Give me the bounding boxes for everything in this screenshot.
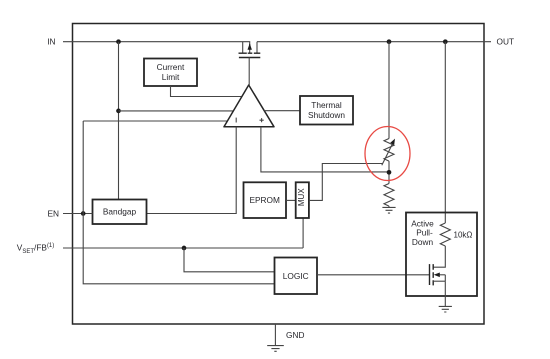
- svg-text:MUX: MUX: [297, 188, 306, 206]
- block EPROM: [244, 182, 287, 218]
- resistor R1 variable: [382, 139, 395, 166]
- ground pulldown: [439, 306, 452, 312]
- svg-text:Shutdown: Shutdown: [308, 110, 345, 120]
- node divider tap junction: [387, 170, 392, 175]
- svg-text:OUT: OUT: [497, 36, 515, 46]
- wire op-amp input from EN node: [83, 120, 227, 122]
- svg-text:Bandgap: Bandgap: [103, 207, 137, 217]
- wire LOGIC to pulldown gate: [317, 274, 430, 276]
- svg-text:IN: IN: [47, 36, 55, 46]
- outer block boundary: [73, 24, 485, 325]
- svg-text:EN: EN: [47, 208, 59, 218]
- wire op-amp input from IN branch: [119, 110, 234, 112]
- wire divider bottom: [388, 206, 390, 207]
- block MUX: [296, 182, 309, 218]
- wire current limit to op-amp: [171, 86, 242, 97]
- resistor R2 lower divider: [384, 184, 394, 207]
- node EN junction: [81, 211, 86, 216]
- transistor Q1 pass PMOS: [239, 42, 261, 58]
- svg-text:10kΩ: 10kΩ: [454, 230, 473, 239]
- ground divider: [382, 207, 395, 213]
- transistor M2 pulldown NMOS: [430, 264, 446, 285]
- wire EN pin to bandgap: [63, 213, 93, 215]
- wire divider top: [388, 42, 390, 139]
- wire VSET/FB pin: [63, 247, 303, 249]
- wire GND stem: [274, 324, 276, 346]
- wire divider mid: [388, 161, 390, 183]
- wire OUT branch to 10k resistor: [444, 42, 446, 223]
- highlight red ellipse: [365, 127, 410, 181]
- svg-text:VSET/FB(1): VSET/FB(1): [17, 243, 54, 255]
- wire inverting input stub to bandgap: [147, 127, 237, 214]
- wire gate stem to op-amp: [248, 58, 250, 86]
- wire EN branch to op-amp and logic: [83, 121, 274, 284]
- svg-text:Limit: Limit: [162, 72, 180, 82]
- wire OUT rail: [257, 41, 491, 43]
- svg-text:Down: Down: [412, 237, 434, 247]
- wire IN branch down to bandgap: [118, 42, 120, 200]
- op-amp U1 error amplifier: [224, 85, 274, 127]
- wire VSET to MUX: [302, 218, 304, 248]
- node junction OUT rail to pulldown: [443, 39, 448, 44]
- block Thermal Shutdown: [300, 96, 353, 125]
- block Active Pull-Down: [406, 213, 477, 297]
- wire MUX to divider wiper: [309, 164, 383, 201]
- node junction on IN rail: [116, 39, 121, 44]
- wire 10k to NMOS drain: [433, 246, 445, 267]
- wire IN rail: [63, 42, 250, 50]
- resistor R3 10k: [440, 223, 450, 246]
- wire EPROM to MUX: [286, 199, 296, 201]
- block Bandgap: [93, 200, 147, 225]
- svg-text:Thermal: Thermal: [311, 100, 342, 110]
- wire NMOS source to ground: [444, 281, 446, 306]
- svg-text:LOGIC: LOGIC: [283, 271, 309, 281]
- block Current Limit: [144, 59, 197, 87]
- node junction to op-amp input: [116, 109, 121, 114]
- svg-text:EPROM: EPROM: [249, 195, 280, 205]
- svg-text:Current: Current: [157, 62, 185, 72]
- node junction OUT rail to divider: [387, 39, 392, 44]
- block LOGIC: [275, 258, 318, 295]
- wire op-amp to thermal shutdown: [264, 110, 300, 112]
- wire VSET branch to logic: [184, 248, 275, 272]
- ground main: [267, 346, 284, 352]
- node VSET junction: [182, 246, 187, 251]
- svg-text:GND: GND: [286, 330, 304, 340]
- wire non-inverting input stub to divider tap: [261, 127, 389, 172]
